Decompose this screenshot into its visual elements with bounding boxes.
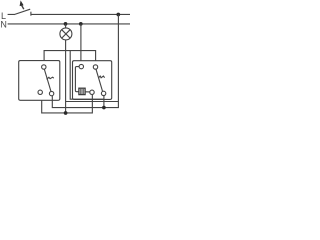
switch U2 bottom common terminal	[101, 91, 105, 95]
wire L rail right segment	[31, 13, 130, 15]
switch U1 right terminal	[49, 91, 53, 95]
wire rail H3 from left box left terminal to right box glow terminal	[42, 95, 93, 113]
lamp E1 circle	[60, 28, 72, 40]
switch U1 actuator hook	[47, 77, 54, 79]
node junction dot on H2 at right box common stub	[102, 106, 106, 110]
switch U1 common terminal	[42, 65, 46, 69]
wire mid horizontal net with end drops	[44, 51, 96, 61]
switch U2 glow lamp terminal	[90, 90, 94, 94]
switch box U1 outline	[19, 61, 60, 101]
switch S1 actuation arrow head	[20, 0, 24, 6]
wire right box common stub	[103, 96, 105, 108]
node junction dot on N rail at right box feed	[79, 22, 83, 26]
wire rail H1	[66, 101, 119, 103]
switch U2 terminal N side	[79, 64, 83, 68]
switch S1 blade	[14, 9, 30, 14]
wire N rail	[8, 23, 130, 25]
svg-text:N: N	[0, 20, 7, 30]
wire lamp bottom drop G2 to rail H3	[65, 40, 67, 113]
glow lamp G internal wire from terminal	[75, 67, 79, 92]
node junction dot on L rail	[116, 13, 120, 17]
switch U1 blade	[44, 69, 51, 91]
switch S1 fixed contact tick	[30, 12, 32, 16]
switch U1 left terminal	[38, 90, 42, 94]
switch U2 blade	[96, 69, 103, 91]
node junction dot on N rail at lamp stem	[64, 22, 68, 26]
wire switched-L vertical and rail H2 to left box right terminal	[52, 14, 118, 107]
glow lamp G body	[79, 88, 85, 94]
glow lamp G right lead	[85, 91, 90, 93]
switch S1 actuation arrow stem	[22, 5, 24, 9]
wire lamp stem to N	[65, 24, 67, 28]
switch U2 terminal top-right	[93, 65, 97, 69]
wire N drop to right box terminal	[80, 24, 82, 61]
switch box U2 outline	[73, 61, 112, 100]
node junction dot on H3 at lamp drop	[64, 111, 68, 115]
switch U2 actuator hook	[98, 76, 104, 78]
wire L rail left segment	[8, 13, 15, 15]
wire lamp net drop beside right box	[70, 51, 104, 100]
lamp E1 cross	[62, 30, 70, 38]
glow lamp G electrodes	[80, 89, 82, 94]
